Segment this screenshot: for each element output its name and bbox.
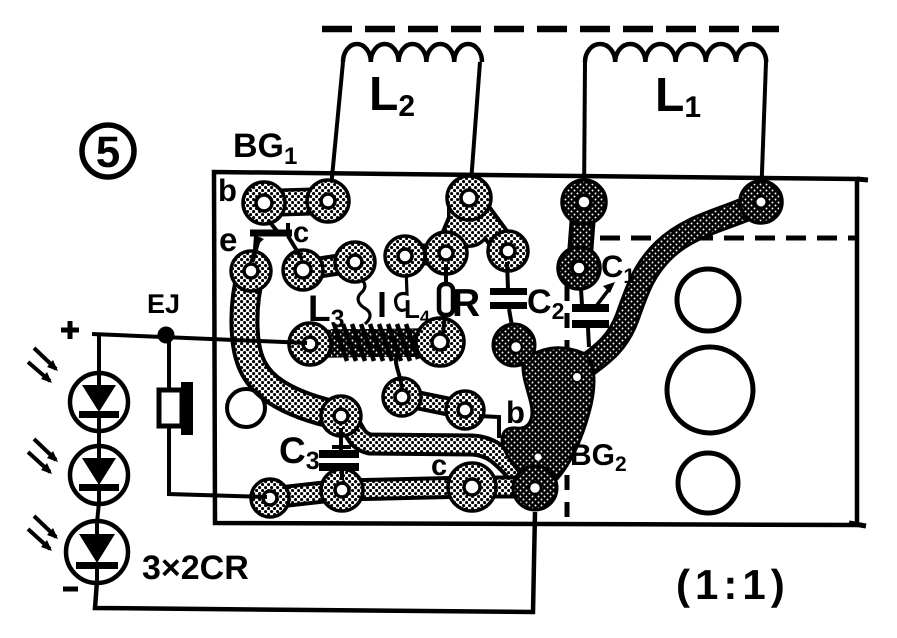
trace L3 winding run	[310, 342, 440, 344]
copper blob top-left pad lobe	[493, 324, 535, 366]
wire D1-D2	[97, 429, 101, 448]
wire plus rail into board	[92, 334, 307, 343]
pad emitter	[231, 251, 271, 291]
trace row c pads	[303, 262, 355, 270]
pad dumbbell right	[446, 391, 484, 429]
blob pad hole top-left	[510, 341, 522, 353]
svg-text:c: c	[431, 450, 447, 482]
wire EJ to speaker	[167, 341, 171, 392]
label plus	[61, 321, 79, 339]
wire L1 left lead	[584, 62, 585, 200]
pad collector row 1	[283, 250, 323, 290]
wire L2 left lead	[330, 62, 343, 198]
photocell D3	[66, 521, 128, 583]
pad row 3	[385, 236, 425, 276]
copper blob BG2 body	[502, 348, 594, 491]
pad L1 left bottom	[558, 247, 600, 289]
pad row 2	[335, 242, 375, 282]
svg-text:EJ: EJ	[147, 289, 180, 319]
wire L2 right lead	[470, 62, 480, 196]
pad C3 top	[321, 396, 361, 436]
wire L3 trace to dumbbell pad	[396, 352, 402, 390]
wire speaker down to board pad	[169, 426, 267, 497]
capacitor C1 symbol (electrolytic with arrow)	[572, 282, 615, 347]
light arrows D1	[28, 348, 58, 383]
svg-text:b: b	[218, 173, 237, 208]
figure number 5 (circled)	[82, 125, 134, 177]
top dashed antenna line	[322, 26, 779, 33]
trace BG1 base dumbbell	[264, 201, 328, 203]
hole free circle 2	[667, 347, 753, 433]
pad L3 left	[289, 323, 331, 365]
light arrows D3	[28, 516, 58, 551]
pad dumbbell left	[383, 378, 421, 416]
svg-text:3×2CR: 3×2CR	[142, 549, 249, 587]
pad L1 left top	[562, 180, 606, 224]
pad collector BG2	[448, 463, 496, 511]
hole free circle 1	[677, 269, 739, 331]
trace mid lower run to blob	[341, 416, 516, 472]
wire BG2 base link	[479, 416, 499, 438]
blob pad hole small	[535, 454, 542, 461]
hole free circle 3	[678, 453, 738, 513]
photocell D2	[70, 446, 128, 504]
trace row mid pads	[405, 253, 446, 256]
trace bottom run	[270, 487, 528, 498]
trace small dumbbell mid	[402, 397, 465, 410]
svg-text:5: 5	[96, 128, 120, 177]
pad BG1 b left	[243, 182, 285, 224]
circuit board outline	[214, 172, 857, 525]
trace Y junction top center	[446, 198, 508, 253]
pad row 5	[488, 231, 528, 271]
svg-text:R: R	[452, 282, 480, 325]
wire plus down	[97, 334, 101, 375]
L4 lead hook	[396, 266, 407, 310]
copper blob bottom pad lobe	[513, 466, 557, 510]
svg-text:b: b	[506, 395, 525, 430]
coil L2	[343, 44, 482, 62]
label minus	[63, 587, 78, 592]
capacitor C3 symbol	[319, 428, 359, 480]
trace emitter long run left	[244, 271, 341, 416]
L3 lead squiggle	[357, 276, 370, 324]
trace right vertical dumbbell	[579, 202, 584, 268]
svg-text:(1:1): (1:1)	[676, 561, 790, 608]
speaker EJ symbol	[159, 382, 193, 435]
wire D2-D3	[97, 502, 99, 523]
pad L1 right (curve start)	[740, 181, 782, 223]
pad C3 bottom	[321, 469, 363, 511]
svg-text:c: c	[293, 217, 309, 249]
light arrows D2	[28, 439, 58, 474]
svg-text:e: e	[219, 221, 237, 258]
pad BG1 b right	[307, 180, 349, 222]
dashed line vertical (BG2 zone)	[565, 286, 570, 523]
wire bottom rail	[95, 512, 535, 612]
transistor BG1 symbol	[250, 220, 302, 262]
hole free circle small	[227, 389, 265, 427]
pad bottom left	[251, 479, 289, 517]
pad top center (L2 right)	[447, 176, 491, 220]
blob pad hole bottom	[529, 482, 541, 494]
capacitor C2 symbol	[490, 262, 527, 326]
photocell D1	[70, 373, 128, 431]
pad L3 right	[416, 318, 464, 366]
L3 winding dark hatch	[331, 324, 419, 361]
board corner overshoot marks	[849, 179, 868, 526]
dashed line horizontal right	[600, 236, 857, 241]
resistor R symbol	[439, 264, 453, 333]
junction dot EJ	[158, 327, 175, 344]
pad row 4	[425, 232, 467, 274]
blob pad hole collector	[572, 372, 582, 382]
L3 core dash	[380, 292, 385, 317]
wire L1 right lead	[761, 62, 766, 200]
coil L1	[585, 44, 766, 62]
trace dark S-curve from top right pad	[586, 202, 761, 366]
